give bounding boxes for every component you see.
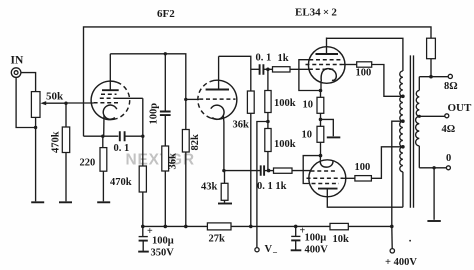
resistor 27k decoupling: [207, 223, 231, 230]
wire jack tip to pot top: [21, 73, 36, 92]
resistor NFB (feedback): [427, 38, 436, 76]
capacitor 100u 400V electrolytic: [291, 226, 302, 250]
wire cathode junction to ground: [321, 119, 334, 136]
tube V2 plate: [206, 56, 229, 89]
junction rail / 36k V2: [249, 225, 253, 229]
svg-text:6F2: 6F2: [157, 8, 175, 20]
resistor 1k grid stopper V3: [273, 67, 309, 72]
resistor 470k grid leak: [62, 103, 69, 201]
wire secondary bottom to 0 terminal: [419, 167, 446, 169]
svg-text:10: 10: [302, 130, 313, 141]
tube V3 g3 (dashed) with bracket to cathode: [299, 60, 341, 91]
wire centre tap to B+ rail: [392, 121, 403, 226]
svg-text:0. 1: 0. 1: [114, 143, 130, 154]
svg-text:0. 1 1k: 0. 1 1k: [257, 181, 287, 192]
junction rail / 36k step: [164, 225, 168, 229]
terminal V-: [255, 248, 259, 252]
capacitor 0.1 cathode: [120, 131, 143, 141]
tube V3 plate: [316, 38, 339, 55]
junction UL tap upper: [401, 95, 405, 99]
wire 82k line to V2 grid: [186, 98, 199, 100]
junction lower cap / 100k lower: [267, 169, 271, 173]
svg-text:4Ω: 4Ω: [442, 124, 456, 135]
svg-text:100μ: 100μ: [305, 233, 327, 244]
terminal +400V: [390, 226, 394, 253]
junction 0 terminal ground: [432, 166, 435, 169]
resistor 100k upper: [265, 69, 271, 121]
tube V3 cathode: [321, 69, 336, 91]
tube V2 cathode: [211, 105, 224, 170]
tube V2 6F2 triode envelope (dashed left): [198, 80, 237, 119]
svg-text:27k: 27k: [209, 234, 226, 245]
svg-text:100μ: 100μ: [152, 236, 174, 247]
tube V1 6F2 pentode envelope (dashed right): [91, 81, 130, 120]
svg-text:NEXTGR: NEXTGR: [126, 152, 195, 169]
tube V1 grid g1 (dashed): [94, 102, 121, 104]
transformer T1 core: [410, 55, 413, 207]
svg-text:V: V: [265, 244, 273, 255]
junction 4 ohm tap: [418, 115, 421, 118]
resistor 10k decoupling: [330, 223, 348, 229]
tube V4 plate (inverted): [318, 189, 403, 208]
junction centre tap: [401, 119, 405, 123]
wire V3 plate to primary top: [327, 38, 403, 71]
svg-text:470k: 470k: [110, 177, 132, 188]
svg-text:100: 100: [356, 68, 372, 79]
wire jack sleeve down to ground bus: [16, 77, 35, 127]
tube V3 g1 (dashed): [309, 68, 336, 70]
junction NFB / 8 ohm: [429, 75, 433, 79]
svg-text:–: –: [272, 248, 278, 257]
svg-text:36k: 36k: [168, 153, 179, 170]
capacitor 100p: [160, 54, 171, 146]
junction V1 cathode / 220: [101, 135, 104, 138]
resistor 82k plate load: [182, 130, 189, 227]
junction pot bottom / jack sleeve: [34, 126, 37, 129]
tube V4 cathode (inverted): [320, 156, 333, 168]
potentiometer 50k body: [31, 92, 40, 118]
bracket V4 g3 to cathode: [303, 156, 320, 184]
svg-text:IN: IN: [11, 55, 24, 67]
svg-text:50k: 50k: [46, 91, 64, 103]
junction wiper / 470k: [64, 102, 67, 105]
potentiometer wiper arrow: [40, 101, 66, 105]
junction top cap / 100k: [266, 68, 270, 72]
resistor 470k screen: [139, 98, 146, 226]
tube V1 grid g2 (dashed) exits right: [100, 97, 143, 99]
junction V2 cathode / 43k: [222, 169, 225, 172]
wire divider to V- line: [257, 122, 268, 249]
tube V4 g1 (dashed): [311, 170, 338, 172]
junction rail / +400V: [390, 225, 394, 229]
resistor 36k step network: [162, 146, 169, 226]
inner box: V1 plate rail: [110, 54, 186, 130]
svg-text:8Ω: 8Ω: [444, 81, 458, 92]
svg-text:EL34 × 2: EL34 × 2: [295, 7, 337, 19]
svg-text:10: 10: [303, 100, 314, 111]
resistor 36k plate load V2: [247, 91, 254, 226]
svg-text:100k: 100k: [274, 98, 296, 109]
resistor 10 lower: [317, 126, 324, 155]
svg-text:82k: 82k: [190, 134, 201, 151]
tube V1 grid g3 (dashed): [101, 93, 117, 95]
speck artifact: [409, 240, 411, 242]
junction V4 cathode / bracket: [319, 154, 323, 158]
junction plate rail / 100p: [164, 52, 167, 55]
capacitor 0.1 top coupling: [251, 64, 273, 74]
wire secondary top to 8 ohm terminal: [419, 76, 448, 78]
ground 43k: [218, 203, 232, 205]
svg-text:+ 400V: + 400V: [385, 257, 417, 268]
junction V3 cathode / g3 bracket: [319, 89, 323, 93]
wire V2 cathode to lower coupling cap: [224, 170, 261, 172]
svg-text:0: 0: [446, 153, 451, 164]
tube V4 EL34 lower envelope (inverted): [309, 160, 346, 197]
svg-text:36k: 36k: [233, 120, 250, 131]
ground pot: [31, 201, 44, 203]
svg-text:350V: 350V: [151, 248, 175, 259]
resistor 1k grid stopper V4: [274, 168, 311, 173]
capacitor 100u 350V electrolytic: [138, 226, 149, 251]
svg-text:OUT: OUT: [448, 102, 473, 114]
feedback line from output: [84, 27, 432, 136]
junction rail / 100u 400V: [294, 225, 298, 229]
terminal 4 ohm: [445, 114, 449, 118]
tube V3 EL34 upper envelope: [308, 47, 345, 84]
resistor 100 screen V4: [355, 147, 403, 181]
junction g2 line / 0.1 cap: [141, 135, 144, 138]
B+ rail bottom: [143, 225, 392, 227]
terminal 0: [446, 166, 450, 170]
junction rail / 82k: [184, 225, 188, 229]
resistor 100 screen V3: [357, 62, 403, 97]
wire 4 ohm tap: [419, 115, 444, 117]
wire pot bottom to ground: [35, 117, 37, 201]
tube V3 g2 (dashed) exits right: [306, 64, 357, 66]
junction 10/10 to ground: [319, 118, 323, 122]
svg-text:220: 220: [80, 158, 96, 169]
junction 82k line / V2 grid: [184, 98, 187, 101]
svg-text:470k: 470k: [51, 131, 62, 153]
capacitor 0.1 lower coupling: [261, 165, 274, 175]
resistor 43k: [221, 171, 228, 203]
tube V1 cathode: [103, 105, 117, 136]
ground cathode resistors: [327, 136, 341, 138]
tube V2 grid (dashed): [199, 98, 235, 100]
resistor 10 upper: [317, 91, 324, 127]
tube V4 g3 (dashed): [312, 183, 340, 185]
svg-text:0. 1: 0. 1: [256, 53, 272, 64]
ground secondary: [433, 168, 435, 220]
ground 470k: [59, 201, 72, 203]
junction UL tap lower: [401, 145, 405, 149]
svg-text:100: 100: [355, 162, 371, 173]
svg-text:43k: 43k: [201, 182, 218, 193]
wire V2 plate to 36k/coupling: [219, 56, 251, 91]
svg-text:1k: 1k: [278, 53, 289, 64]
junction rail / 470k screen + 100u: [141, 225, 145, 229]
primary bottom lead to V4 plate: [402, 172, 404, 207]
resistor 100k lower: [265, 122, 271, 171]
wire wiper to tube1 grid: [66, 102, 94, 104]
svg-text:10k: 10k: [333, 234, 350, 245]
junction 100k divider: [266, 120, 270, 124]
tube V4 g2 (dashed) exits right: [307, 177, 355, 179]
input jack J1: [11, 68, 21, 78]
transformer T1 primary winding: [400, 71, 403, 172]
transformer T1 secondary winding: [416, 77, 420, 168]
svg-text:400V: 400V: [305, 245, 329, 256]
ground 220: [97, 201, 110, 203]
resistor 220 cathode: [100, 136, 107, 201]
cathode wire V1: [84, 135, 119, 137]
svg-text:100p: 100p: [149, 103, 160, 125]
tube V1 plate: [102, 54, 119, 90]
terminal 8 ohm: [448, 74, 452, 78]
svg-text:100k: 100k: [274, 139, 296, 150]
